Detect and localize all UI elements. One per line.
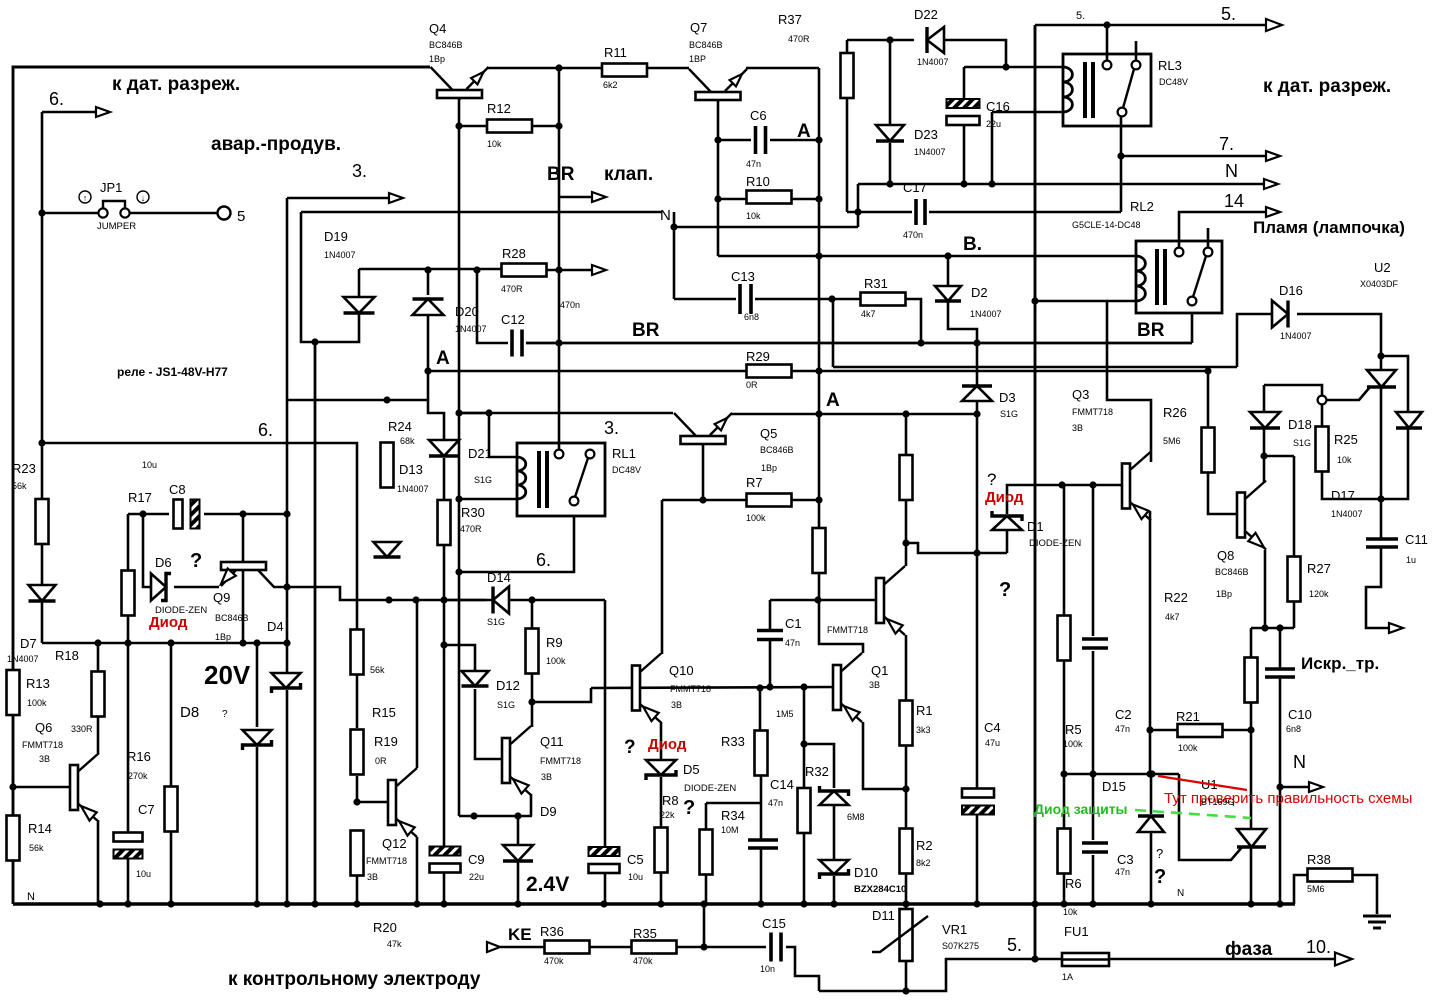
svg-text:C6: C6 [750, 108, 767, 123]
svg-text:100k: 100k [546, 656, 566, 666]
junction dot 770,687 [766, 683, 773, 690]
wire Q2 base wire [770, 599, 876, 602]
wire y371 long [428, 370, 747, 373]
capacitor C2 [1082, 639, 1108, 648]
wire Q7 base vertical [717, 100, 720, 256]
svg-text:Q10: Q10 [669, 663, 694, 678]
wire y816 to Q11 emitter [459, 815, 532, 818]
junction dot 474,816 [470, 812, 477, 819]
wire Q1 base node down [803, 687, 806, 788]
junction dot 257,904 [253, 900, 260, 907]
wire C14 bottom [760, 849, 763, 904]
arrow iskra [1389, 623, 1403, 633]
svg-text:D18: D18 [1288, 417, 1312, 432]
svg-text:R5: R5 [1065, 722, 1082, 737]
wire C7 top [127, 643, 130, 833]
wire x858 N tie [857, 184, 860, 227]
svg-text:↑: ↑ [83, 193, 88, 203]
svg-text:10k: 10k [1063, 907, 1078, 917]
junction dot 804,687 [800, 683, 807, 690]
svg-text:?: ? [190, 550, 202, 572]
resistor R11 [602, 64, 647, 77]
svg-text:A: A [826, 390, 840, 411]
svg-text:X0403DF: X0403DF [1360, 279, 1399, 289]
junction dot 760,688 [756, 684, 763, 691]
wire R20 bottom [356, 875, 359, 904]
wire R27 top [1293, 456, 1296, 556]
junction dot 518,904 [514, 900, 521, 907]
svg-text:D22: D22 [914, 7, 938, 22]
capacitor C13 [740, 284, 751, 314]
junction dot 906,991 [902, 987, 909, 994]
wire R17 bottom [127, 616, 130, 643]
svg-text:22u: 22u [469, 872, 484, 882]
transistor Q2 FMMT718 [876, 566, 905, 635]
junction dot 171,904 [167, 900, 174, 907]
junction dot 819,414 [815, 410, 822, 417]
junction dot 977,414 [973, 410, 980, 417]
svg-text:C16: C16 [986, 99, 1010, 114]
svg-text:47k: 47k [387, 939, 402, 949]
transistor Q9 [221, 562, 274, 587]
resistor R38 [1308, 869, 1353, 882]
svg-text:R11: R11 [604, 45, 627, 60]
wire N mid arrow [1280, 786, 1311, 789]
wire C7 bottom [127, 858, 130, 904]
wire R8 to rail [660, 873, 663, 904]
svg-text:N: N [1225, 161, 1238, 181]
wire y367 long [833, 366, 1237, 369]
transistor Q6 FMMT718 [70, 753, 99, 822]
wire y184 N line [858, 183, 1266, 186]
svg-text:R35: R35 [633, 926, 657, 941]
wire D23 bottom [889, 143, 892, 184]
junction dot 1151,904 [1147, 900, 1154, 907]
svg-text:Искр._тр.: Искр._тр. [1301, 654, 1379, 673]
svg-text:S1G: S1G [487, 617, 505, 627]
wire R27 branch [1264, 455, 1294, 458]
resistor R37 [841, 53, 854, 98]
wire R2 bottom [905, 873, 908, 904]
wire R31 right [905, 299, 921, 343]
wire R1 to junction [905, 746, 908, 789]
relay RL2 [1136, 241, 1222, 313]
zener diode D10 [820, 860, 849, 879]
wire x286 vertical 3-net to D4 [286, 198, 289, 672]
svg-text:Q9: Q9 [213, 590, 230, 605]
wire R32 to rail [803, 833, 806, 904]
svg-text:R22: R22 [1164, 590, 1188, 605]
junction dot 661,904 [657, 900, 664, 907]
svg-text:D6: D6 [155, 555, 172, 570]
arrow KE [487, 942, 500, 952]
wire R23 to D7 [41, 543, 44, 584]
svg-text:B.: B. [963, 234, 982, 255]
resistor R1 [900, 701, 913, 746]
svg-text:?: ? [999, 579, 1011, 601]
svg-text:D9: D9 [540, 804, 557, 819]
svg-text:BC846B: BC846B [689, 40, 723, 50]
svg-text:3B: 3B [1072, 423, 1083, 433]
svg-text:VR1: VR1 [942, 922, 967, 937]
junction dot 1107,25 [1103, 21, 1110, 28]
svg-text:BR: BR [1137, 320, 1165, 341]
svg-text:R31: R31 [864, 276, 888, 291]
wire y643 horizontal [42, 642, 287, 645]
wire D7 to y643 [41, 602, 44, 643]
svg-text:C10: C10 [1288, 707, 1312, 722]
wire D19 bottom [301, 212, 359, 342]
svg-text:FMMT718: FMMT718 [540, 756, 581, 766]
wire R37 top stub [846, 40, 849, 54]
svg-text:5.: 5. [1076, 10, 1085, 22]
junction dot 906,789 [902, 785, 909, 792]
svg-text:RL2: RL2 [1130, 199, 1154, 214]
wire D17 bottom [1381, 429, 1408, 499]
svg-text:5: 5 [237, 208, 245, 225]
svg-text:6.: 6. [536, 550, 551, 570]
junction dot 287,514 [283, 510, 290, 517]
wire C9 column top [443, 645, 446, 846]
svg-text:1M5: 1M5 [776, 709, 794, 719]
svg-text:5.: 5. [1221, 4, 1236, 24]
svg-text:BR: BR [547, 164, 575, 185]
wire C17 right [929, 211, 1121, 214]
svg-text:1N4007: 1N4007 [397, 484, 429, 494]
wire y212 C17 segment [847, 211, 912, 214]
junction dot 804,744 [800, 740, 807, 747]
diode D18 [1250, 412, 1280, 428]
junction dot 1150,730 [1146, 726, 1153, 733]
wire Q4 emitter to junction [488, 67, 559, 70]
wire JP1 left [42, 212, 98, 215]
svg-text:1A: 1A [1062, 972, 1073, 982]
wire R5 top [1063, 485, 1066, 616]
svg-text:6M8: 6M8 [847, 812, 865, 822]
svg-text:C13: C13 [731, 269, 755, 284]
relay RL1 [517, 443, 605, 516]
annotation green dashed line [1135, 810, 1251, 818]
wire Q6 base [13, 786, 70, 789]
junction dot 804,904 [800, 900, 807, 907]
transistor Q4 [431, 67, 489, 100]
wire D18 top [1263, 385, 1266, 412]
junction dot 1121,156 [1117, 152, 1124, 159]
svg-text:1Bp: 1Bp [429, 54, 445, 64]
wire y269 R28 left [359, 268, 502, 271]
resistor R26 [1202, 428, 1215, 473]
capacitor C10 [1265, 669, 1295, 677]
wire R9 bottom [531, 671, 534, 702]
wire R33 bottom [760, 776, 763, 803]
wire Q2 collector stub [905, 543, 908, 566]
svg-text:R25: R25 [1334, 432, 1358, 447]
junction dot 13,787 [9, 783, 16, 790]
junction dot 1035,904 [1031, 900, 1038, 907]
svg-text:R28: R28 [502, 246, 526, 261]
svg-text:1N4007: 1N4007 [7, 654, 39, 664]
wire R7 right [791, 499, 819, 502]
svg-text:N: N [660, 207, 671, 224]
diode D19 [344, 297, 375, 313]
wire D3 bottom [976, 401, 979, 553]
wire R38 left [1294, 875, 1308, 904]
wire C3 top [1092, 774, 1095, 840]
wire U2 gate [1326, 387, 1370, 400]
jumper JP1 [79, 191, 149, 218]
junction dot 1152,774 [1148, 770, 1155, 777]
svg-text:1Bp: 1Bp [215, 632, 231, 642]
wire R36 to R35 [590, 946, 631, 949]
svg-text:1BP: 1BP [689, 54, 706, 64]
transistor Q10 FMMT718 [632, 654, 661, 723]
wire D12 jog [444, 645, 475, 672]
svg-text:100k: 100k [1063, 739, 1083, 749]
junction dot 257,643 [253, 639, 260, 646]
capacitor C1 [757, 631, 783, 640]
junction dot 604,904 [600, 900, 607, 907]
junction dot 1251,904 [1247, 900, 1254, 907]
wire RL3 switch top stub [1135, 41, 1138, 61]
junction dot 459,572 [455, 568, 462, 575]
wire R38 right to ground [1352, 875, 1377, 914]
svg-text:6.: 6. [49, 89, 64, 109]
junction dot 143,514 [139, 510, 146, 517]
junction dot 243,514 [239, 510, 246, 517]
junction dot 1064,774 [1060, 770, 1067, 777]
arrow 7 [1266, 151, 1280, 161]
zener diode D1 [992, 511, 1022, 530]
wire D15 to rail [1150, 833, 1153, 904]
wire y67 C16 to RL3 coil [964, 66, 1063, 69]
wire VR1 bottom [905, 961, 908, 991]
wire Q11 collector up [531, 702, 534, 727]
wire D15 top stub [1150, 774, 1153, 814]
resistor R6 [1058, 829, 1071, 874]
wire C15 right jog [786, 947, 819, 991]
junction dot 977,343 [973, 339, 980, 346]
svg-text:R24: R24 [388, 419, 412, 434]
svg-text:D17: D17 [1331, 488, 1355, 503]
svg-text:JUMPER: JUMPER [97, 221, 136, 232]
svg-text:Q8: Q8 [1217, 548, 1234, 563]
svg-text:R34: R34 [721, 808, 745, 823]
svg-text:D10: D10 [854, 865, 878, 880]
junction dot 559,126 [555, 122, 562, 129]
svg-text:S1G: S1G [1293, 438, 1311, 448]
arrow faza 10 [1335, 953, 1352, 966]
svg-text:Q11: Q11 [540, 734, 564, 749]
svg-text:N: N [1293, 752, 1306, 772]
svg-text:100k: 100k [1178, 743, 1198, 753]
wire Q10 base long Q1 base net [591, 687, 833, 688]
svg-text:?: ? [624, 737, 636, 758]
junction dot 459,126 [455, 122, 462, 129]
svg-text:10u: 10u [628, 872, 643, 882]
wire y803 [706, 802, 761, 805]
svg-text:Диод: Диод [985, 489, 1024, 506]
svg-text:4k7: 4k7 [1165, 612, 1180, 622]
svg-text:?: ? [1154, 866, 1166, 888]
wire D2 bottom jog [948, 302, 977, 343]
svg-text:56k: 56k [370, 665, 385, 675]
svg-text:клап.: клап. [604, 164, 653, 185]
svg-text:D13: D13 [399, 462, 423, 477]
wire Q3 emitter column [1149, 511, 1152, 774]
diode D13 [374, 542, 401, 557]
resistor R12 [487, 120, 532, 133]
wire C6 left [718, 139, 751, 142]
svg-text:U2: U2 [1374, 260, 1391, 275]
wire R5 bottom [1063, 660, 1066, 774]
junction dot 459,499 [455, 495, 462, 502]
svg-text:FU1: FU1 [1064, 924, 1089, 939]
junction dot 416,600 [412, 596, 419, 603]
wire Q11 emitter down [530, 794, 533, 816]
diode D12 [462, 671, 489, 686]
junction dot 1035,959 [1031, 955, 1038, 962]
svg-text:47n: 47n [1115, 867, 1130, 877]
ground symbol [1363, 916, 1391, 928]
svg-text:56k: 56k [29, 843, 44, 853]
wire C12 left [477, 270, 508, 343]
wire A y413 right part [731, 413, 977, 416]
junction dot 819,256 [815, 252, 822, 259]
junction dot 1264,456 [1260, 452, 1267, 459]
svg-text:10u: 10u [136, 869, 151, 879]
capacitor C3 [1082, 843, 1108, 852]
wire y774 [1064, 773, 1179, 776]
svg-text:R20: R20 [373, 920, 397, 935]
svg-text:D8: D8 [180, 704, 199, 721]
wire RL1 coil1 branch [459, 413, 517, 457]
svg-text:1Bp: 1Bp [1216, 589, 1232, 599]
wire D3 top stub [976, 343, 979, 385]
svg-text:S1G: S1G [474, 475, 492, 485]
arrow 6 [96, 107, 110, 117]
svg-text:3B: 3B [367, 872, 378, 882]
resistor R8 [655, 828, 668, 873]
junction dot 444,645 [440, 641, 447, 648]
wire C5 to rail [604, 872, 607, 904]
wire KE arrow to R36 [500, 946, 544, 949]
junction dot 559,270 [555, 266, 562, 273]
svg-text:470k: 470k [544, 956, 564, 966]
svg-text:RL3: RL3 [1158, 58, 1182, 73]
capacitor C7 electrolytic [114, 833, 143, 859]
wire 5 line [1035, 24, 1268, 27]
svg-text:к дат. разреж.: к дат. разреж. [1263, 76, 1391, 97]
wire D8 to rail [256, 747, 259, 904]
wire x42 vertical JP1/R23/D7 column [41, 112, 44, 500]
wire C10 top [1279, 628, 1282, 668]
junction dot 890,184 [886, 180, 893, 187]
svg-text:R13: R13 [26, 676, 50, 691]
wire D16 right [1297, 314, 1381, 370]
junction dot 718,199 [714, 195, 721, 202]
zener diode D5 [646, 760, 676, 780]
svg-text:?: ? [222, 709, 228, 720]
svg-text:?: ? [987, 470, 996, 489]
junction dot 1280,628 [1276, 624, 1283, 631]
annotation red pointer line [1158, 776, 1247, 790]
svg-text:A: A [797, 121, 811, 142]
junction dot 890,40 [886, 36, 893, 43]
junction dot 444,904 [440, 900, 447, 907]
wire Q9 base lower extension [242, 571, 245, 643]
transistor Q3 FMMT718 [1122, 452, 1151, 521]
svg-text:C11: C11 [1405, 532, 1428, 547]
resistor R14 [7, 816, 20, 861]
wire C16 top stub [963, 67, 966, 98]
capacitor C4 electrolytic [962, 789, 994, 815]
resistor R30 [438, 500, 451, 545]
svg-text:10.: 10. [1306, 937, 1331, 957]
svg-text:3.: 3. [352, 161, 367, 181]
thyristor U2 X0403DF [1367, 370, 1396, 387]
wire arrow 6 line [42, 111, 98, 114]
svg-text:авар.-продув.: авар.-продув. [211, 134, 341, 155]
wire R7 left [662, 499, 747, 502]
junction dot 1265,628 [1261, 624, 1268, 631]
junction dot 171,643 [167, 639, 174, 646]
wire R34 top [705, 803, 708, 829]
resistor R15 [351, 630, 364, 675]
svg-text:R1: R1 [916, 703, 933, 718]
diode D14 [493, 587, 509, 614]
wire D23 top [889, 40, 892, 126]
svg-text:10k: 10k [1337, 455, 1352, 465]
wire C4 top [976, 553, 979, 789]
resistor R34 [700, 830, 713, 875]
wire D22 right [937, 40, 1006, 67]
svg-text:2.4V: 2.4V [526, 873, 569, 896]
wire Q10 collector up [661, 500, 664, 654]
svg-text:D2: D2 [971, 285, 988, 300]
svg-text:47n: 47n [746, 159, 761, 169]
wire D9 to rail [517, 862, 520, 904]
wire D8 top stub [256, 643, 259, 727]
wire FU1 right faza line [1109, 958, 1336, 961]
junction dot 428,371 [424, 367, 431, 374]
svg-text:BC846B: BC846B [760, 445, 794, 455]
junction dot 315,904 [311, 900, 318, 907]
svg-text:47n: 47n [1115, 724, 1130, 734]
transistor Q11 FMMT718 [502, 726, 531, 795]
wire R26 top stub [1207, 371, 1210, 427]
capacitor C16 electrolytic [947, 99, 980, 125]
svg-text:FMMT718: FMMT718 [827, 625, 868, 635]
svg-text:R30: R30 [461, 505, 485, 520]
wire Q4 base vertical long [458, 98, 461, 816]
wire R4 bottom [905, 499, 908, 543]
resistor R23 [36, 499, 49, 544]
junction dot 818,600 [814, 596, 821, 603]
svg-text:R32: R32 [805, 764, 829, 779]
wire C11 bottom path [1366, 548, 1391, 628]
resistor R27 [1288, 557, 1301, 602]
connector pin 5 circle [218, 207, 231, 220]
svg-text:D23: D23 [914, 127, 938, 142]
svg-text:470n: 470n [560, 300, 580, 310]
wire Q5 base stub [702, 444, 705, 500]
diode D9 [503, 845, 533, 861]
wire R11 right [648, 67, 689, 70]
resistor R33 [755, 731, 768, 776]
junction dot 1381,499 [1377, 495, 1384, 502]
svg-text:3B: 3B [869, 680, 880, 690]
svg-text:5M6: 5M6 [1307, 884, 1325, 894]
